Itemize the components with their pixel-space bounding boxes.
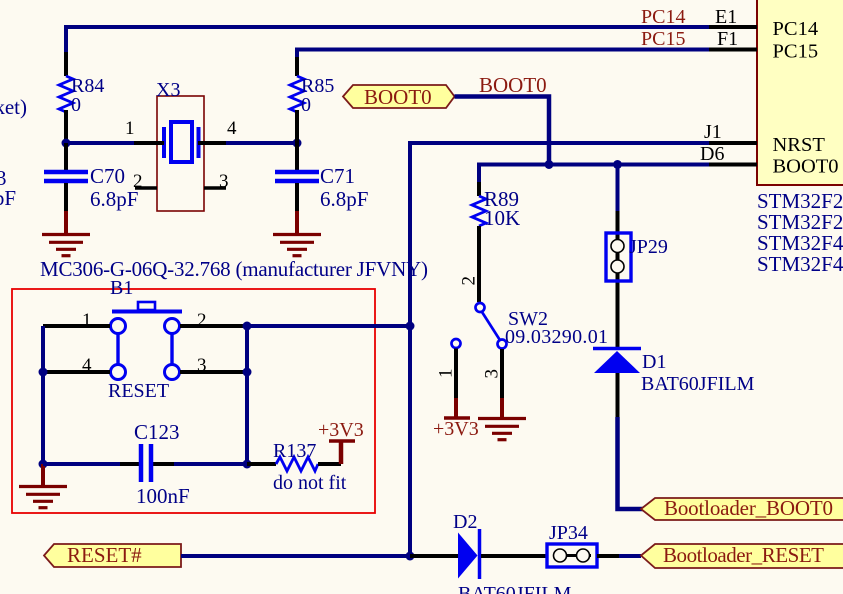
wire C123 left [43, 462, 120, 466]
svg-text:D6: D6 [700, 143, 724, 165]
pin 1 of X3 [134, 141, 164, 145]
port flag BOOT0 [343, 85, 455, 108]
junction at R84/C70 node [62, 139, 71, 148]
svg-text:D2: D2 [453, 511, 477, 533]
svg-text:STM32F415R: STM32F415R [757, 252, 843, 276]
svg-text:6.8pF: 6.8pF [90, 187, 138, 211]
svg-text:0: 0 [71, 94, 81, 116]
crystal X3 symbol [171, 122, 192, 162]
svg-text:PC14: PC14 [641, 6, 685, 28]
IC U1 body (STM32 part, right edge) [757, 0, 843, 185]
port flag Bootloader_BOOT0 [641, 498, 843, 520]
button B1 contact pin1 [111, 319, 126, 334]
junction right rail / C123 [243, 460, 252, 469]
svg-text:2: 2 [459, 276, 480, 286]
wire JP34 to Bootloader_RESET [597, 554, 619, 558]
wire X3 pin4 to R85/C71 node [226, 141, 297, 145]
capacitor C70 [64, 143, 68, 170]
svg-text:C70: C70 [90, 164, 125, 188]
pin F1 of U1 (PC15) [709, 48, 757, 52]
jumper JP29 body [606, 233, 631, 281]
svg-text:B1: B1 [110, 277, 133, 299]
resistor R85 [295, 57, 299, 76]
svg-text:2: 2 [197, 310, 207, 331]
power +3V3 at R137 [339, 442, 344, 464]
junction right rail / pin2 [243, 322, 252, 331]
capacitor C123 [139, 444, 144, 482]
svg-text:BOOT0: BOOT0 [479, 73, 547, 97]
button B1 contact pin3 [165, 365, 180, 380]
junction at R85/C71 node [293, 139, 302, 148]
wire B1 pin2 [180, 324, 247, 328]
svg-text:1: 1 [125, 118, 135, 139]
diode D2 triangle [458, 533, 478, 579]
wire B1 pin4 [43, 370, 110, 374]
wire BOOT0 flag to BOOT0 net [455, 97, 550, 165]
pin 4 of X3 [198, 141, 226, 145]
ground at B1 [41, 464, 45, 485]
wire BOOT0 net [479, 165, 709, 183]
wire PC15 net [297, 50, 709, 58]
JP29 pad 1 [611, 240, 624, 253]
junction right rail / pin3 [243, 368, 252, 377]
wire B1 left rail [41, 326, 45, 464]
svg-text:BOOT0: BOOT0 [364, 85, 432, 109]
wire B1 pin1 [43, 324, 110, 328]
resistor R137 [247, 462, 276, 466]
wire B1 right rail [245, 326, 249, 464]
button B1 contact links [116, 334, 119, 364]
svg-text:PC14: PC14 [773, 18, 819, 40]
wire PC14 net [66, 27, 709, 52]
ground at SW2 pin3 [500, 398, 504, 417]
wire D1 anode to Bootloader_BOOT0 [618, 417, 644, 509]
wire D2 cathode to JP34 [481, 554, 547, 558]
junction BOOT0 flag wire / BOOT0 net [545, 160, 554, 169]
svg-text:6.8pF: 6.8pF [320, 187, 368, 211]
svg-text:C71: C71 [320, 164, 355, 188]
svg-text:3: 3 [482, 369, 503, 379]
svg-text:3: 3 [219, 171, 229, 192]
junction NRST rail / B1 branch [406, 322, 415, 331]
svg-text:JP29: JP29 [629, 236, 668, 258]
svg-text:09.03290.01: 09.03290.01 [505, 326, 608, 348]
svg-text:pF: pF [0, 186, 16, 210]
port flag RESET# [44, 544, 181, 567]
JP29 pad 2 [611, 260, 624, 273]
jumper JP34 body [547, 544, 597, 567]
svg-text:R137: R137 [273, 440, 316, 462]
SW2 pin 3 lead [500, 349, 504, 398]
svg-text:do not fit: do not fit [273, 472, 347, 494]
svg-text:+3V3: +3V3 [318, 419, 364, 441]
svg-text:BAT60JFILM: BAT60JFILM [641, 373, 755, 395]
svg-text:RESET: RESET [108, 380, 169, 402]
svg-text:E1: E1 [715, 6, 737, 28]
svg-text:PC15: PC15 [773, 41, 819, 63]
diode D2 cathode bar [478, 529, 482, 579]
pin D6 of U1 (BOOT0) [709, 163, 757, 167]
wire BOOT0 net to JP29 [616, 165, 620, 212]
button B1 contact pin2 [165, 319, 180, 334]
pin 2 of X3 (stub) [135, 186, 157, 190]
button B1 actuator cap [138, 302, 155, 310]
resistor R89 [477, 182, 481, 196]
svg-text:100nF: 100nF [136, 484, 190, 508]
svg-text:BAT60JFILM: BAT60JFILM [458, 583, 572, 594]
wire C123 right [153, 462, 174, 466]
svg-text:0: 0 [301, 94, 311, 116]
B1 block red frame [12, 289, 375, 513]
svg-text:MC306-G-06Q-32.768 (manufactur: MC306-G-06Q-32.768 (manufacturer JFVNY) [40, 257, 428, 281]
svg-text:C123: C123 [134, 420, 180, 444]
wire rail to D2 anode [410, 554, 458, 558]
svg-text:J1: J1 [704, 121, 722, 143]
svg-text:3: 3 [197, 355, 207, 376]
svg-text:Bootloader_RESET: Bootloader_RESET [663, 543, 824, 567]
switch SW2 lever [482, 312, 501, 341]
svg-text:+3V3: +3V3 [433, 418, 479, 440]
wire RESET# to rail [181, 554, 410, 558]
svg-text:PC15: PC15 [641, 28, 685, 50]
SW2 pin 1 lead [454, 349, 458, 399]
resistor R84 [64, 52, 68, 76]
junction left rail / C123 [39, 460, 48, 469]
pin 3 of X3 (stub) [204, 186, 226, 190]
svg-text:BOOT0: BOOT0 [773, 156, 839, 178]
svg-text:4: 4 [82, 355, 92, 376]
junction RESET rail / D2 branch [406, 552, 415, 561]
switch SW2 contact pin 1 [452, 339, 461, 348]
switch SW2 contact pin 3 [498, 340, 507, 349]
svg-text:X3: X3 [156, 79, 180, 101]
svg-text:NRST: NRST [773, 134, 826, 156]
ground at C71 [295, 211, 299, 233]
ground at C70 [64, 211, 68, 233]
svg-text:ket): ket) [0, 95, 27, 119]
button B1 contact pin4 [111, 365, 126, 380]
switch SW2 common contact (pin 2) [476, 303, 485, 312]
wire NRST net (to vertical rail) [410, 143, 709, 556]
pin J1 of U1 (NRST) [709, 141, 757, 145]
wire B1 pin3 [180, 370, 247, 374]
capacitor C71 [295, 143, 299, 170]
diode D1 cathode bar [593, 347, 641, 351]
junction BOOT0 net / JP29 branch [613, 160, 622, 169]
svg-text:F1: F1 [717, 28, 738, 50]
svg-text:2: 2 [133, 171, 143, 192]
svg-text:Bootloader_BOOT0: Bootloader_BOOT0 [664, 496, 833, 520]
svg-text:RESET#: RESET# [67, 543, 142, 567]
svg-text:4: 4 [227, 118, 237, 139]
svg-text:JP34: JP34 [549, 522, 588, 544]
diode D1 triangle [594, 351, 640, 373]
pin E1 of U1 (PC14) [709, 25, 757, 29]
svg-text:1: 1 [436, 369, 457, 379]
svg-text:10K: 10K [484, 206, 520, 230]
junction left rail / pin4 [39, 368, 48, 377]
button B1 actuator bar [112, 310, 182, 314]
JP34 internal link [553, 554, 591, 557]
JP34 pad 1 [554, 549, 567, 562]
diode D1 anode lead [616, 373, 620, 417]
crystal X3 body box [157, 96, 204, 211]
svg-text:1: 1 [82, 310, 92, 331]
port flag Bootloader_RESET [641, 544, 843, 568]
jumper JP29 pin leads [616, 211, 620, 348]
svg-text:D1: D1 [642, 351, 666, 373]
power +3V3 at SW2 pin1 [454, 398, 458, 417]
JP34 pad 2 [577, 549, 590, 562]
wire node OSC32_IN to X3 pin1 [66, 141, 134, 145]
